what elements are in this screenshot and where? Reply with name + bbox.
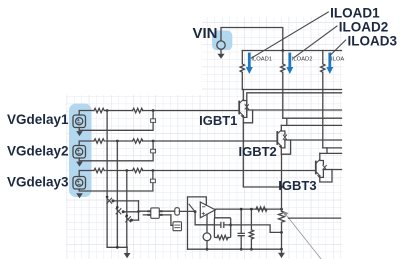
block U2 comparator [151, 208, 160, 218]
wire op-amp output [215, 208, 281, 210]
node row2 switch tap [116, 140, 119, 143]
node VIN rail junction [281, 49, 284, 52]
voltage source V1 (VIN) [217, 41, 225, 49]
svg-text:ILOAD2: ILOAD2 [339, 20, 389, 35]
wire VIN to top rail [221, 28, 283, 51]
wire IGBT3 collector bus [320, 152, 342, 154]
callout line to ILOAD3 [331, 40, 346, 55]
wire connector collector to ILOAD2 bus [286, 118, 288, 125]
switch S2 [116, 206, 119, 209]
capacitor C5 to ground [238, 209, 244, 249]
wire IGBT3 emitter bus [323, 169, 341, 171]
ground arrow row3 [76, 193, 83, 198]
transistor IGBT3 [315, 162, 317, 174]
svg-text:ILOA: ILOA [331, 57, 344, 63]
ground below VIN [220, 49, 222, 54]
resistor R8 to ground [249, 209, 253, 249]
wire row3 to R6 [106, 170, 133, 172]
switch S1 [106, 196, 109, 199]
wire IGBT1 emitter [243, 110, 252, 123]
node row2 cap tap [152, 140, 155, 143]
feedback loop with C and R [214, 218, 230, 225]
wire switch3 output [132, 219, 139, 221]
svg-text:VGdelay1: VGdelay1 [7, 112, 69, 127]
diode D2 at IGBT1 [243, 101, 247, 118]
wire rail y92 with left elbow to IGBT1 emitter [243, 93, 341, 118]
wire IGBT1 emitter bus [247, 109, 342, 111]
svg-text:VGdelay3: VGdelay3 [7, 175, 69, 190]
current arrow ILOAD1 [248, 54, 251, 67]
highlight behind VGdelay sources [69, 104, 92, 198]
resistor RLOAD1 [240, 51, 244, 90]
transistor IGBT1 [238, 102, 240, 114]
ground arrow row2 [76, 162, 83, 167]
wire to comparator block [139, 211, 151, 215]
callout line to ILOAD2 [294, 26, 338, 58]
ground arrow shunt [281, 249, 283, 253]
voltage source V2 at op-amp [203, 233, 211, 241]
wire op-amp top to ground rail [188, 197, 207, 249]
wire IGBT3 emitter [320, 170, 332, 183]
switch S3 [126, 214, 129, 217]
wire switch bus vertical [138, 201, 140, 220]
ground arrow row1 [76, 131, 83, 136]
capacitor C1 branch [79, 111, 153, 131]
wire row1 gate to IGBT1 [143, 110, 239, 112]
node row3 switch tap [125, 169, 128, 172]
wire IGBT2 emitter bus [285, 139, 342, 141]
highlight behind VIN source [212, 31, 232, 51]
resistor R5 row3 [94, 168, 104, 172]
potentiometer R10 shunt [279, 211, 285, 249]
diode D4 at IGBT3 [320, 161, 324, 178]
grid background lower region [66, 95, 343, 259]
wire to op-amp input switch [179, 210, 195, 212]
node row1 cap tap [152, 109, 155, 112]
wire ILOAD3 bus [323, 147, 342, 149]
wire feedback to shunt node [231, 225, 282, 233]
resistor R7 feedback [217, 235, 228, 239]
wire IGBT1 collector [242, 90, 244, 100]
capacitor C4 feedback [214, 222, 230, 227]
wire rail y89 [242, 89, 341, 91]
wire block1 top pin [79, 111, 94, 116]
svg-text:ILOAD1: ILOAD1 [251, 57, 272, 63]
resistor R3 row2 [94, 139, 104, 143]
svg-text:VGdelay2: VGdelay2 [7, 143, 69, 158]
wire IGBT2 collector [280, 125, 282, 130]
wire IGBT3 collector [319, 153, 321, 159]
wire ILOAD2 bus [283, 117, 342, 119]
wire block3 top pin [79, 171, 94, 177]
wire IGBT2 emitter long vertical to shunt [281, 154, 283, 211]
transistor IGBT2 [276, 132, 278, 144]
resistor R2 row1 [133, 108, 143, 112]
wire switch3 vertical [126, 171, 128, 248]
potentiometer arrow [285, 214, 321, 259]
wire row3 gate to IGBT3 [143, 170, 316, 172]
wire connector ILOAD3 to IGBT3 collector bus [326, 148, 328, 154]
node switch bus junction [137, 210, 140, 213]
resistor R6 row3 [133, 168, 143, 172]
svg-text:VIN: VIN [193, 25, 218, 42]
wire op-amp inverting input down branch [195, 212, 214, 225]
svg-text:ILOAD1: ILOAD1 [330, 6, 380, 21]
wire block2 top pin [79, 141, 94, 146]
svg-text:IGBT1: IGBT1 [199, 113, 237, 128]
resistor RLOAD2 [281, 51, 285, 119]
wire IGBT2 emitter [281, 140, 290, 154]
wire pot wiper output [289, 217, 341, 219]
wire IGBT1 emitter down to IGBT2 emitter [243, 123, 281, 187]
switch S4 at op-amp input [194, 210, 197, 213]
node shunt bottom [280, 248, 283, 251]
svg-text:IGBT2: IGBT2 [239, 144, 277, 159]
resistor R1 row1 [94, 108, 107, 112]
wire row1 to R2 [106, 110, 133, 112]
node switch rail junction [116, 246, 119, 249]
wire row2 gate to IGBT2 [143, 140, 277, 142]
current arrow ILOAD2 [288, 54, 291, 67]
ground rail B [188, 248, 282, 250]
callout line to ILOAD1 [252, 12, 329, 58]
wire switch2 vertical [116, 141, 118, 247]
wire switch ground rail [107, 246, 127, 248]
svg-text:ILOAD3: ILOAD3 [348, 34, 398, 49]
wire row2 to R4 [106, 140, 133, 142]
component D1 small box on wire [175, 208, 180, 215]
wire block outputs [159, 211, 175, 215]
node row1 switch tap [106, 109, 109, 112]
source block VGdelay2 [73, 146, 86, 159]
block U3 small box [173, 222, 182, 231]
op-amp U1 [200, 202, 215, 218]
wire switch2 output [123, 211, 138, 213]
ground arrow switches [126, 247, 128, 253]
resistor R4 row2 [133, 139, 143, 143]
capacitor C3 branch [79, 171, 153, 192]
diode D3 at IGBT2 [281, 131, 285, 148]
wire elbow to box2 [171, 215, 173, 225]
wire switch1 vertical [106, 111, 108, 248]
source block VGdelay3 [73, 177, 86, 190]
svg-text:IGBT3: IGBT3 [278, 178, 316, 193]
source block VGdelay1 [73, 115, 86, 128]
resistor R9 output [256, 207, 267, 211]
current arrow ILOAD3 [328, 54, 331, 67]
capacitor C2 branch [79, 141, 153, 161]
resistor RLOAD3 [321, 51, 325, 148]
node row3 cap tap [152, 169, 155, 172]
node shunt lower junction [280, 231, 283, 234]
wire IGBT2 collector bus [281, 124, 341, 126]
grid background upper region [202, 17, 343, 95]
wire top load rail [242, 50, 341, 52]
node emitter tie junction [280, 186, 283, 189]
wire apex to feedback loop [214, 210, 216, 218]
wire switch1 output [113, 200, 139, 202]
